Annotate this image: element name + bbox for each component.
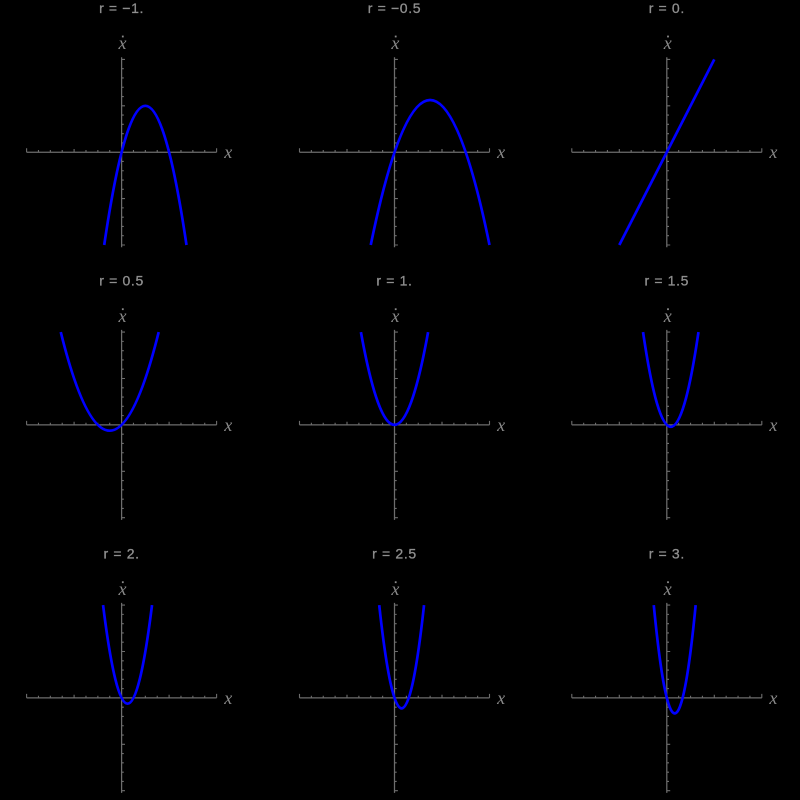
axis ticks r=0.5 [27, 332, 217, 518]
axis ticks r=-1 [27, 59, 217, 245]
svg-text:x: x [768, 142, 777, 162]
x-axis r=0 [572, 151, 762, 153]
axis ticks r=2 [27, 605, 217, 791]
svg-text:x: x [768, 415, 777, 435]
y-axis r=-0.5 [394, 57, 396, 247]
x-axis r=2.5 [300, 697, 490, 699]
svg-text:x: x [223, 688, 232, 708]
axis ticks r=-0.5 [300, 59, 490, 245]
axis ticks r=0 [572, 59, 762, 245]
svg-text:r = −1.: r = −1. [99, 0, 144, 16]
x-axis r=0.5 [27, 424, 217, 426]
svg-text:x: x [496, 415, 505, 435]
svg-text:r = 2.: r = 2. [103, 546, 139, 562]
svg-text:x: x [223, 142, 232, 162]
y-axis r=0 [666, 57, 668, 247]
axis ticks r=1 [300, 332, 490, 518]
curve r=2 [103, 605, 152, 704]
y-axis r=1 [394, 330, 396, 520]
x-axis r=1.5 [572, 424, 762, 426]
x-axis r=-1 [27, 151, 217, 153]
y-axis r=1.5 [666, 330, 668, 520]
curve r=0 [619, 59, 714, 245]
svg-text:r = 3.: r = 3. [649, 546, 685, 562]
curve r=1 [361, 332, 428, 425]
svg-text:x: x [496, 142, 505, 162]
svg-text:r = 0.5: r = 0.5 [99, 273, 144, 289]
y-axis r=2 [121, 603, 123, 793]
curve r=2.5 [379, 605, 424, 708]
curve r=0.5 [61, 332, 159, 431]
y-axis r=3 [666, 603, 668, 793]
svg-text:r = −0.5: r = −0.5 [368, 0, 421, 16]
curve r=1.5 [643, 332, 698, 427]
svg-text:r = 2.5: r = 2.5 [372, 546, 417, 562]
y-axis r=0.5 [121, 330, 123, 520]
axis ticks r=3 [572, 605, 762, 791]
axis ticks r=1.5 [572, 332, 762, 518]
svg-text:r = 0.: r = 0. [649, 0, 685, 16]
curve r=-1 [104, 106, 186, 245]
x-axis r=2 [27, 697, 217, 699]
x-axis r=1 [300, 424, 490, 426]
curve r=3 [654, 605, 696, 713]
svg-text:r = 1.: r = 1. [376, 273, 412, 289]
svg-text:r = 1.5: r = 1.5 [644, 273, 689, 289]
svg-text:x: x [223, 415, 232, 435]
axis ticks r=2.5 [300, 605, 490, 791]
x-axis r=-0.5 [300, 151, 490, 153]
y-axis r=2.5 [394, 603, 396, 793]
svg-text:x: x [768, 688, 777, 708]
svg-text:x: x [496, 688, 505, 708]
y-axis r=-1 [121, 57, 123, 247]
curve r=-0.5 [371, 100, 490, 245]
x-axis r=3 [572, 697, 762, 699]
